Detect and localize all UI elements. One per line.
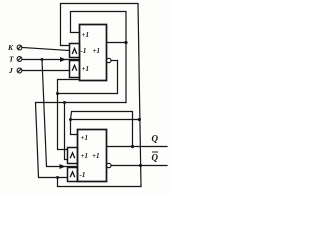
svg-text:K: K xyxy=(7,43,14,52)
wire H2 drop to slave gate1 lower xyxy=(65,103,68,160)
node H3-H4 xyxy=(69,118,72,121)
node A-H1 xyxy=(56,92,59,95)
node H2 drop xyxy=(63,101,66,104)
node T wire junction xyxy=(41,58,44,61)
node master output xyxy=(124,41,127,44)
wire outer feedback loop to master gate G1 xyxy=(61,4,142,187)
svg-text:+1: +1 xyxy=(81,152,89,160)
wire Qbar output line xyxy=(111,165,167,167)
node Q line xyxy=(131,145,134,148)
svg-text:-1: -1 xyxy=(81,47,87,55)
node H4 outer xyxy=(138,118,141,121)
wire Vbub drop and H1 xyxy=(58,61,118,94)
wire bottom loop left riser xyxy=(57,178,59,187)
terminal K xyxy=(17,45,22,50)
arrow T slave dynamic input xyxy=(60,164,66,169)
AND gate slave G3 xyxy=(68,148,78,164)
inversion bubble master xyxy=(107,58,111,62)
wire inner top loop to master top input xyxy=(71,12,127,103)
label AND glyph master G2 xyxy=(72,65,77,71)
wire left drop to slave gate2 lower xyxy=(36,103,68,178)
wire master inverted output line xyxy=(111,60,118,62)
wire master output xyxy=(107,42,127,44)
node bottom loop xyxy=(56,176,59,179)
svg-text:Q: Q xyxy=(152,134,159,144)
svg-text:+1: +1 xyxy=(81,134,89,142)
wire H4 from outer vertical xyxy=(71,119,140,121)
inversion bubble slave xyxy=(107,163,111,167)
label AND glyph slave G3 xyxy=(70,153,75,159)
wire T input xyxy=(22,59,80,61)
svg-text:+1: +1 xyxy=(92,152,100,160)
svg-text:-1: -1 xyxy=(80,171,86,179)
terminal T xyxy=(17,57,22,62)
AND gate slave G4 xyxy=(68,168,78,182)
wire K input xyxy=(22,48,70,51)
AND gate master G1 xyxy=(70,44,80,58)
block master U1 xyxy=(80,25,107,81)
arrow T master dynamic input xyxy=(60,57,66,62)
wire bottom loop horizontal xyxy=(58,186,142,188)
node Qbar line xyxy=(139,164,142,167)
svg-text:+1: +1 xyxy=(82,65,90,73)
label AND glyph master G1 xyxy=(72,49,77,55)
wire H3 from node to slave top input xyxy=(71,112,133,147)
wire Va drop and H2 xyxy=(36,102,127,104)
wire T branch vertical to slave clock xyxy=(42,60,78,167)
wire A vertical: master bottom input to slave gate1 upper xyxy=(58,80,80,150)
wire Q output line xyxy=(107,146,168,148)
label AND glyph slave G4 xyxy=(70,172,75,178)
AND gate master G2 xyxy=(70,61,80,78)
svg-text:T: T xyxy=(9,55,14,64)
svg-text:J: J xyxy=(8,66,13,75)
wire J input xyxy=(22,70,70,72)
terminal J xyxy=(17,68,22,73)
svg-text:+1: +1 xyxy=(82,31,90,39)
svg-text:+1: +1 xyxy=(93,47,101,55)
block slave U2 xyxy=(78,130,107,182)
label Qbar overline xyxy=(152,151,158,153)
svg-text:Q: Q xyxy=(152,153,159,163)
